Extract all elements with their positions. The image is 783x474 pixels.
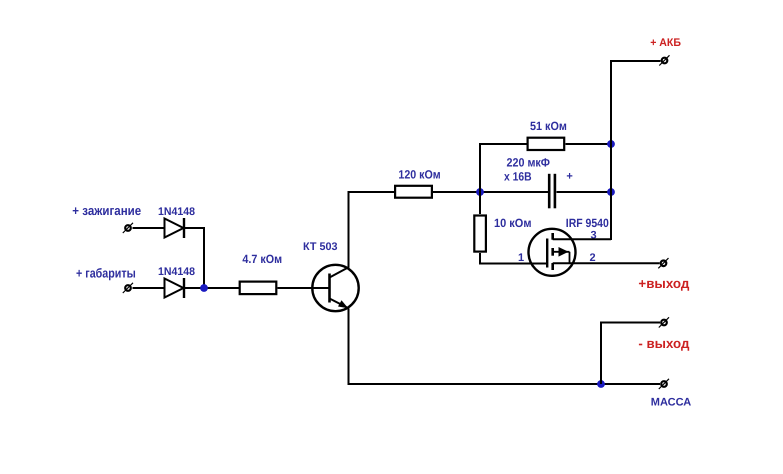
capacitor C1 220 мкФ x 16В [549, 174, 555, 209]
terminal МАССА [659, 379, 669, 389]
svg-text:4.7 кОм: 4.7 кОм [242, 252, 282, 266]
terminal -выход [659, 317, 669, 327]
wire source (pin 2) to +выход terminal [553, 262, 660, 264]
wire corner down to node A [203, 227, 205, 289]
wire node B vertical (up to R3 row, down to R4) [479, 143, 481, 214]
svg-text:х 16В: х 16В [504, 169, 532, 183]
svg-text:120 кОм: 120 кОм [398, 167, 440, 181]
wire node E up to -выход row [600, 323, 602, 385]
wire X1 to diode VD1 [133, 227, 166, 229]
diode VD1 1N4148 [165, 218, 185, 238]
node D junction dot [607, 188, 615, 196]
wire R1 to transistor base [278, 287, 331, 289]
wire VD1 to corner [184, 227, 205, 229]
resistor R1 4.7 кОм [240, 282, 277, 295]
svg-text:1N4148: 1N4148 [158, 206, 195, 218]
transistor Q1 КТ 503 [312, 265, 358, 311]
resistor R4 10 кОм [474, 216, 486, 252]
svg-text:51 кОм: 51 кОм [530, 119, 567, 133]
wire collector riser [348, 192, 350, 268]
wire C1 to node D [557, 191, 612, 193]
node C junction dot [607, 140, 615, 148]
wire R4 bottom corner to gate [479, 253, 481, 265]
wire collector to R2 [348, 191, 395, 193]
svg-text:2: 2 [590, 252, 596, 264]
wire drain (pin 3) to vertical net [553, 238, 611, 240]
wire emitter riser down [348, 309, 350, 385]
wire R2 to capacitor C1 [433, 191, 549, 193]
wire vertical net to +АКБ (x=611) [610, 61, 612, 240]
svg-text:1N4148: 1N4148 [158, 266, 195, 278]
wire bottom rail [348, 383, 661, 385]
MOSFET Q2 IRF 9540 [529, 229, 576, 276]
resistor R3 51 кОм [528, 138, 565, 150]
svg-text:10 кОм: 10 кОм [494, 216, 532, 230]
node A junction dot [200, 284, 208, 292]
wire to -выход terminal [600, 322, 660, 324]
wire VD2 to resistor R1 [184, 287, 239, 289]
wire R3 to node C [566, 143, 612, 145]
node E junction dot [597, 380, 605, 388]
terminal X1 "+ зажигание" [123, 223, 133, 233]
svg-text:КТ 503: КТ 503 [303, 241, 338, 253]
svg-text:+ зажигание: + зажигание [72, 203, 141, 218]
svg-text:+ АКБ: + АКБ [650, 37, 681, 49]
terminal + АКБ [659, 55, 669, 65]
svg-text:- выход: - выход [638, 336, 689, 351]
svg-text:220 мкФ: 220 мкФ [507, 155, 551, 169]
svg-text:+: + [566, 170, 572, 182]
terminal X2 "+ габариты" [123, 283, 133, 293]
wire to R3 left [479, 143, 527, 145]
wire to АКБ terminal [610, 60, 661, 62]
node B junction dot [476, 188, 484, 196]
wire X2 to diode VD2 [133, 287, 166, 289]
wire gate lead (pin 1) [479, 263, 547, 265]
svg-text:IRF 9540: IRF 9540 [566, 216, 609, 230]
svg-text:+выход: +выход [638, 276, 689, 291]
resistor R2 120 кОм [395, 186, 432, 198]
svg-text:1: 1 [518, 252, 524, 264]
diode VD2 1N4148 [165, 278, 185, 298]
svg-text:МАССА: МАССА [651, 396, 691, 408]
svg-text:+ габариты: + габариты [76, 265, 136, 280]
terminal +выход [658, 258, 668, 268]
